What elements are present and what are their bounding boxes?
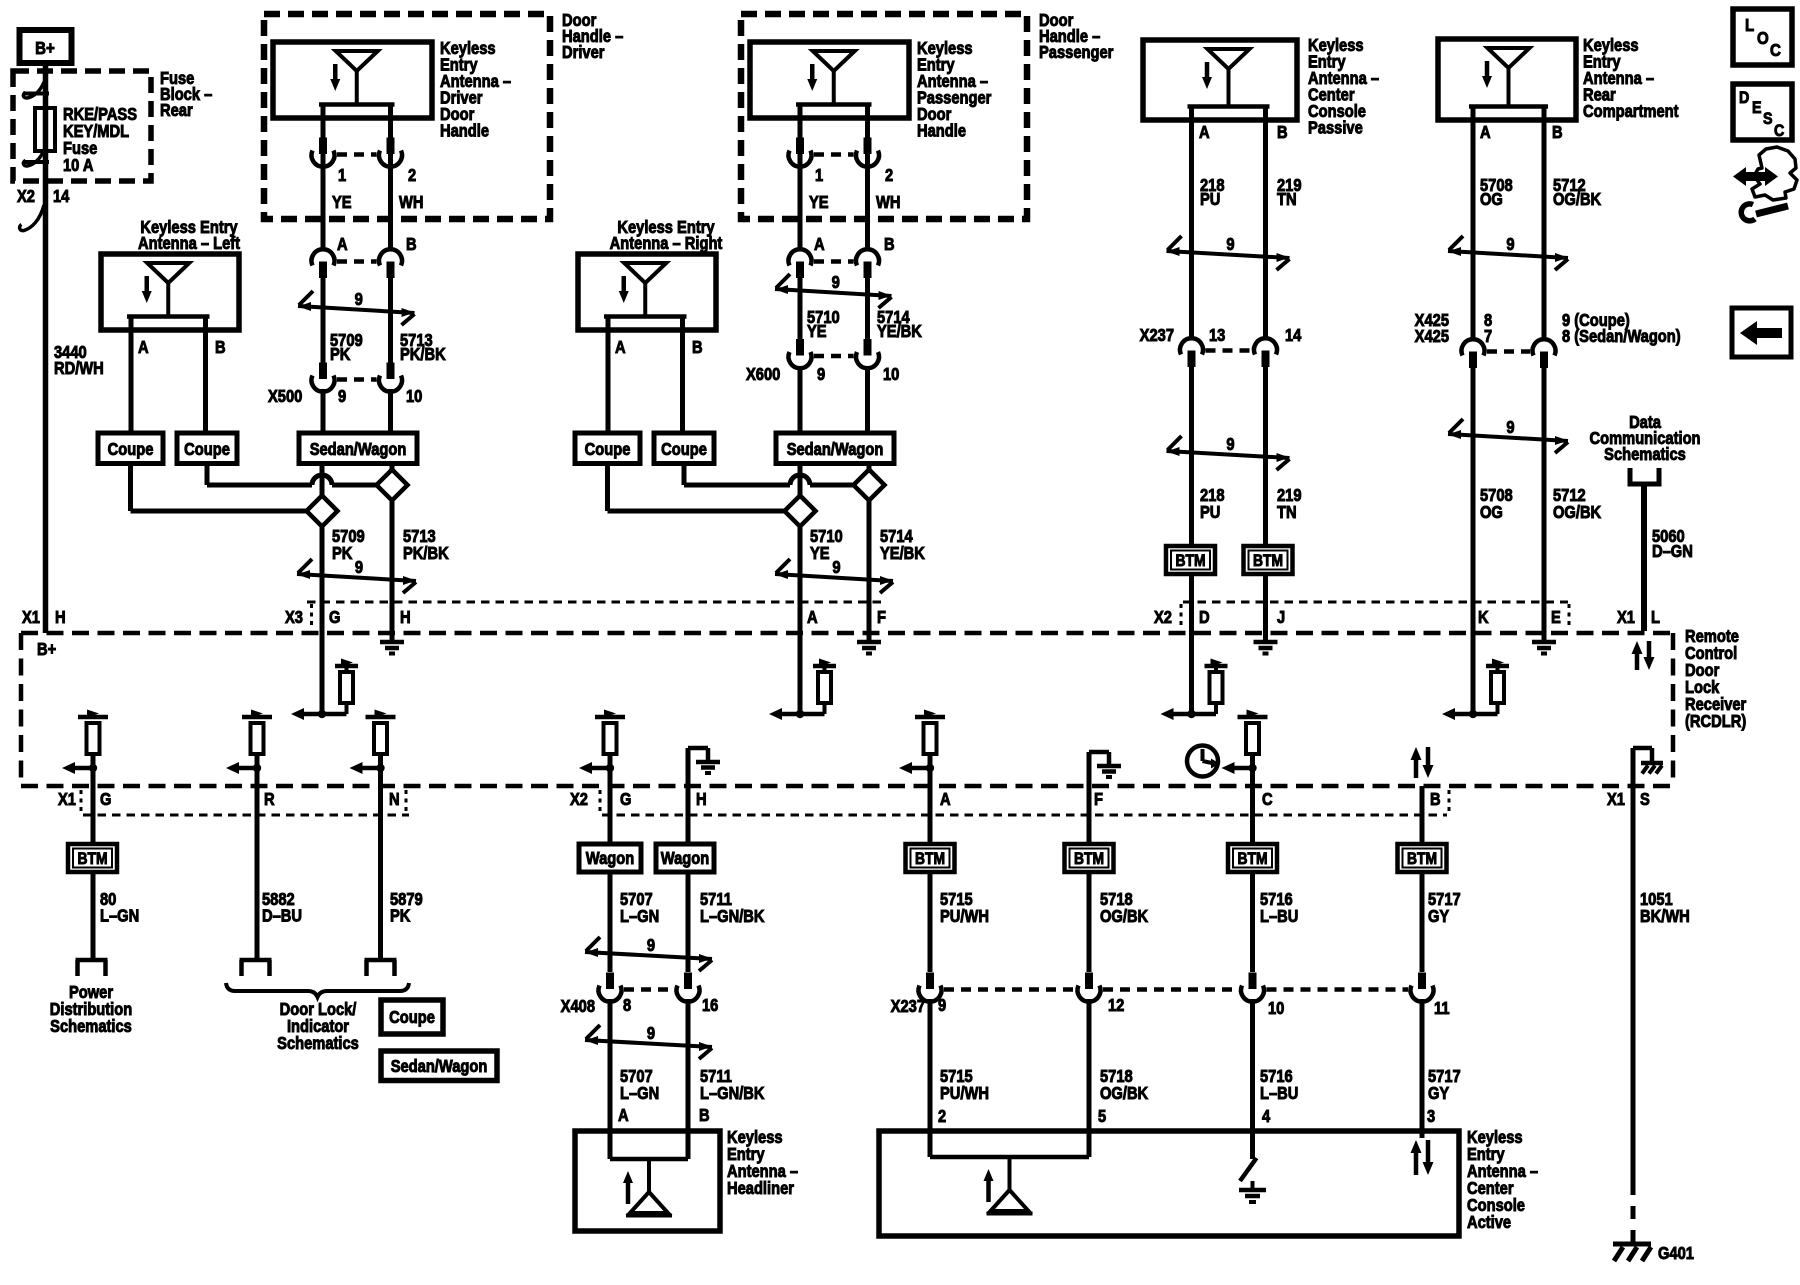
svg-text:H: H [400, 608, 411, 627]
svg-text:9: 9 [1226, 235, 1234, 254]
connector terminal (male pin) [796, 262, 804, 279]
label circuit 5711 L-GN/BK [700, 890, 765, 926]
wire X2-G output [608, 768, 613, 844]
icon wrench and arrows [1733, 147, 1797, 221]
antenna A1 Keyless Entry Antenna - Left [101, 254, 239, 330]
off-page terminator (door lock R) [240, 960, 272, 976]
wire X3-G interior [320, 633, 325, 714]
svg-text:WH: WH [399, 193, 423, 212]
wire right antenna pin A [606, 330, 611, 433]
wire C output [1250, 768, 1255, 844]
svg-text:9: 9 [832, 558, 840, 577]
door handle - passenger dashed boundary [741, 14, 1027, 219]
svg-text:OG: OG [1480, 190, 1503, 209]
interior chassis ground at pin S [1633, 748, 1652, 786]
svg-text:A: A [814, 235, 825, 254]
connector, driver door handle pins 1-2 [312, 138, 403, 167]
svg-text:YE/BK: YE/BK [880, 544, 925, 563]
option box Sedan/Wagon (legend) [381, 1051, 497, 1081]
wire 5713 upper [388, 276, 393, 363]
connector terminal (male pin) [606, 973, 614, 990]
wire 219 TN lower [1263, 366, 1268, 546]
svg-text:A: A [618, 1106, 629, 1125]
label X1 pin H (top left) [22, 608, 66, 627]
svg-text:X1: X1 [58, 790, 76, 809]
svg-text:4: 4 [1262, 1107, 1270, 1126]
antenna A8 Keyless Entry Antenna - Center Console Active [879, 1131, 1459, 1236]
wire 5710 upper [798, 276, 803, 342]
svg-text:TN: TN [1277, 190, 1297, 209]
wire 80 L-GN [91, 872, 96, 960]
wire 5707 L-GN upper [608, 872, 613, 972]
svg-text:BTM: BTM [1407, 850, 1437, 868]
wire 5715 lower [928, 999, 933, 1131]
svg-text:B: B [699, 1106, 710, 1125]
svg-text:PK: PK [332, 544, 353, 563]
wire 5713 lower [390, 463, 395, 633]
label circuit 80 L-GN [100, 890, 139, 926]
svg-text:G401: G401 [1658, 1244, 1694, 1263]
wire 5717 GY upper [1420, 872, 1425, 972]
option box Sedan/Wagon (passenger) [776, 433, 894, 464]
wire 5718 lower [1087, 999, 1092, 1131]
label X1 pins G R N (bottom) [58, 790, 400, 809]
connector strip X1 dotted line (bottom left) [81, 790, 409, 815]
svg-text:PU: PU [1200, 503, 1220, 522]
svg-text:R: R [264, 790, 275, 809]
svg-text:Sedan/Wagon: Sedan/Wagon [310, 440, 407, 459]
svg-text:B: B [692, 338, 703, 357]
connector mating dashed line [944, 987, 1075, 992]
svg-text:X408: X408 [561, 997, 595, 1016]
label YE WH wire colors [809, 193, 900, 212]
label circuit 218 PU [1200, 176, 1225, 209]
wire 219 TN upper [1263, 120, 1268, 339]
svg-text:Headliner: Headliner [727, 1179, 795, 1198]
label Keyless Entry Antenna - Rear Compartment [1583, 36, 1679, 121]
svg-text:5: 5 [1098, 1107, 1106, 1126]
label Remote Control Door Lock Receiver (RCDLR) [1685, 627, 1747, 731]
label Door Handle - Passenger [1039, 11, 1114, 62]
svg-text:9: 9 [1506, 235, 1514, 254]
BTM symbol on 218 [1166, 546, 1215, 574]
wire 5715 PU/WH upper [928, 872, 933, 972]
label circuit 219 TN [1277, 176, 1302, 209]
label circuit 5715 PU/WH [940, 890, 989, 926]
wire 5709 lower [320, 463, 325, 633]
label X425 X425 pins [1415, 311, 1493, 346]
svg-text:Passive: Passive [1308, 118, 1363, 137]
twisted-pair marker, group 9 [1448, 419, 1568, 453]
pass-through grommet [20, 205, 44, 231]
svg-text:L–GN: L–GN [100, 906, 139, 925]
twisted-pair marker, group 9 [1448, 236, 1568, 270]
connector terminal (female) [1241, 986, 1264, 1002]
label Door Lock / Indicator Schematics [277, 1000, 359, 1053]
svg-text:A: A [807, 608, 818, 627]
label circuit 5714 YE/BK [877, 308, 922, 341]
label Keyless Entry Antenna - Center Console Active [1467, 1128, 1538, 1232]
wire F output [1087, 786, 1092, 844]
svg-text:A: A [1480, 123, 1491, 142]
wire N output [378, 768, 383, 960]
fuse block - rear dashed box [13, 71, 151, 181]
svg-text:L–GN/BK: L–GN/BK [700, 1084, 765, 1103]
label X1 pin L [1617, 608, 1660, 627]
svg-text:Active: Active [1467, 1213, 1511, 1232]
label pins A F (passenger wires) [807, 608, 886, 627]
svg-text:C: C [1774, 122, 1784, 140]
label circuit 5707 L-GN (lower) [620, 1067, 659, 1103]
off-page terminator (power distribution) [76, 960, 108, 976]
wire hop over 5710 [790, 475, 810, 485]
svg-text:9: 9 [355, 558, 363, 577]
wire 5714 to Sedan/Wagon [865, 366, 870, 433]
brace door lock group [226, 983, 409, 997]
svg-text:X500: X500 [268, 387, 302, 406]
svg-text:YE: YE [809, 193, 829, 212]
connector terminal (male pin) [1469, 352, 1477, 369]
wire R output [255, 768, 260, 960]
connector strip X2 dotted line (bottom middle) [600, 790, 1449, 815]
svg-text:B+: B+ [35, 38, 55, 59]
connector X237 (console passive) [1180, 338, 1277, 367]
svg-text:TN: TN [1277, 503, 1297, 522]
svg-text:N: N [389, 790, 400, 809]
BTM symbol on 5716 [1228, 844, 1277, 872]
interior ground at pin F [1089, 752, 1121, 786]
label pins A B rear compartment [1480, 123, 1563, 142]
svg-text:D–GN: D–GN [1652, 542, 1693, 561]
svg-text:OG/BK: OG/BK [1100, 907, 1148, 926]
svg-text:BTM: BTM [1074, 850, 1104, 868]
icon DESC box [1733, 84, 1792, 140]
svg-text:13: 13 [1209, 326, 1225, 345]
label circuit 5718 OG/BK [1100, 890, 1148, 926]
twisted-pair marker, group 9 [1167, 436, 1290, 470]
wire K interior [1471, 633, 1476, 714]
svg-text:Wagon: Wagon [661, 849, 709, 868]
svg-text:10: 10 [883, 365, 899, 384]
connector terminal (male pin) [319, 363, 327, 380]
svg-text:9: 9 [647, 936, 655, 955]
label circuit 219 TN (lower) [1277, 486, 1302, 522]
label circuit 5060 D-GN [1652, 527, 1693, 561]
twisted-pair marker, group 9 [585, 1025, 712, 1059]
twisted-pair marker, group 9 [585, 937, 712, 971]
svg-text:L–GN: L–GN [620, 1084, 659, 1103]
svg-text:D–BU: D–BU [262, 906, 302, 925]
label pin 9 (Coupe) 8 (Sedan/Wagon) [1562, 311, 1681, 346]
wire 5708 OG upper [1471, 120, 1476, 340]
svg-text:L–BU: L–BU [1260, 907, 1298, 926]
connector terminal (female) [789, 151, 812, 167]
wire 219 to RCDLR pin J [1263, 574, 1268, 633]
battery B+ terminal box [20, 30, 72, 63]
connector mating dashed line [814, 354, 854, 359]
label circuit 5709 PK (below splice) [332, 527, 365, 563]
wire A output [928, 768, 933, 844]
connector terminal (male pin) [1249, 973, 1257, 990]
wire 218 to RCDLR pin D [1189, 574, 1194, 633]
label YE WH wire colors [332, 193, 423, 212]
wire 5710 to Sedan/Wagon [798, 366, 803, 433]
svg-text:YE: YE [807, 322, 827, 341]
label circuit 5716 L-BU (lower) [1260, 1067, 1298, 1103]
svg-text:9: 9 [1506, 418, 1514, 437]
svg-text:S: S [1763, 110, 1773, 128]
svg-text:B: B [1277, 123, 1288, 142]
svg-text:K: K [1478, 608, 1489, 627]
splice diamond on 5713 [377, 470, 408, 501]
label circuit 5707 L-GN [620, 890, 659, 926]
svg-text:E: E [1551, 608, 1561, 627]
connector terminal (female) [312, 249, 335, 265]
connector terminal (female) [599, 986, 622, 1002]
twisted-pair marker, group 9 [775, 559, 893, 593]
wire Coupe B to splice 5714 (hops over 5710) [684, 463, 854, 485]
connector X237 (console active) [919, 973, 1101, 1002]
wire antenna pin 1 (YE) [321, 118, 326, 251]
ground symbol interior (pin E) [1532, 633, 1556, 654]
svg-text:9: 9 [338, 387, 346, 406]
svg-text:BTM: BTM [915, 850, 945, 868]
wire Coupe A to splice 5710 [608, 463, 786, 511]
wire 5716 L-BU upper [1250, 872, 1255, 972]
svg-text:L: L [1651, 608, 1660, 627]
svg-text:G: G [329, 608, 340, 627]
svg-text:G: G [620, 790, 631, 809]
wire left antenna pin B to Coupe splice [203, 330, 208, 433]
connector strip X3 dotted line [307, 602, 887, 627]
label circuit 5717 GY [1428, 890, 1461, 926]
splice diamond on 5709 [307, 496, 338, 527]
svg-text:14: 14 [1285, 326, 1301, 345]
svg-text:A: A [138, 338, 149, 357]
connector mating dashed line [814, 259, 854, 264]
label circuit 5717 GY (lower) [1428, 1067, 1461, 1103]
wire 218 PU upper [1189, 120, 1194, 339]
ground symbol interior (X3-H) [380, 633, 404, 654]
label circuit 5711 L-GN/BK (lower) [700, 1067, 765, 1103]
connector terminal (female) [919, 986, 942, 1002]
label circuit 5708 OG [1480, 176, 1513, 209]
clock symbol [1187, 746, 1220, 777]
label pins A B of right antenna [615, 338, 703, 357]
svg-text:OG/BK: OG/BK [1553, 503, 1601, 522]
svg-text:Coupe: Coupe [585, 440, 631, 459]
label circuit 5708 OG (lower) [1480, 486, 1513, 522]
svg-text:Antenna – Right: Antenna – Right [610, 234, 723, 253]
label circuit 5713 PK/BK (below splice) [403, 527, 449, 563]
connector terminal (male pin) [796, 138, 804, 155]
fuse clip lower [23, 150, 49, 166]
svg-text:BK/WH: BK/WH [1640, 907, 1690, 926]
svg-text:B: B [1430, 790, 1441, 809]
svg-text:8 (Sedan/Wagon): 8 (Sedan/Wagon) [1562, 327, 1681, 346]
svg-text:B+: B+ [37, 640, 56, 659]
svg-text:10: 10 [406, 387, 422, 406]
connector X425 [1462, 339, 1556, 368]
label circuit 5714 YE/BK (below splice) [880, 527, 925, 563]
connector terminal (female) [312, 151, 335, 167]
up-down arrows inside console antenna (pin 3) [1420, 1131, 1425, 1138]
option box Wagon (5711) [656, 844, 714, 872]
svg-text:O: O [1757, 28, 1769, 49]
wire B+ 3440 RD/WH [43, 63, 49, 633]
svg-text:X237: X237 [891, 997, 925, 1016]
svg-text:PU/WH: PU/WH [940, 1084, 989, 1103]
label X408 pins 8 16 [561, 996, 719, 1016]
connector terminal (male pin) [926, 973, 934, 990]
svg-text:1: 1 [338, 166, 346, 185]
svg-text:12: 12 [1108, 996, 1124, 1015]
label X2 pins G H A F C B (bottom) [570, 790, 1441, 809]
antenna driver element (X2-D) [1161, 659, 1228, 721]
connector X237 mating dashes across [1103, 987, 1238, 992]
svg-text:7: 7 [1484, 327, 1492, 346]
svg-text:B: B [1552, 123, 1563, 142]
connector mating dashed line [337, 259, 377, 264]
label X237 pins 13 14 [1140, 326, 1302, 345]
wire 5060 D-GN [1641, 484, 1647, 631]
label X500 pins 9 10 [268, 387, 422, 406]
label X600 pins 9 10 [746, 365, 899, 384]
svg-text:BTM: BTM [1253, 552, 1283, 570]
door handle - driver dashed boundary [264, 14, 550, 219]
connector mating dashed line [337, 152, 377, 157]
connector terminal (male pin) [319, 262, 327, 279]
label pins A B headliner [618, 1106, 710, 1125]
svg-text:RD/WH: RD/WH [54, 359, 104, 378]
wire antenna pin 1 (YE) [798, 118, 803, 251]
svg-text:11: 11 [1434, 999, 1450, 1018]
svg-text:H: H [696, 790, 707, 809]
label pins 1 2 [815, 166, 893, 185]
label X2 pin 14 fuse block connector [17, 187, 69, 206]
wire D interior [1189, 633, 1194, 714]
svg-text:10: 10 [1268, 999, 1284, 1018]
svg-text:A: A [940, 790, 951, 809]
up-down arrows at pin L [1632, 641, 1655, 670]
connector mating dashed line [337, 377, 377, 382]
wire 5709 to Sedan/Wagon [321, 389, 326, 433]
label pins 1 2 [338, 166, 416, 185]
svg-text:Driver: Driver [562, 43, 605, 62]
svg-text:GY: GY [1428, 907, 1449, 926]
wire A interior [798, 633, 803, 714]
wire 1051 BK/WH [1631, 786, 1636, 1242]
label circuit 5712 OG/BK (lower) [1553, 486, 1601, 522]
label Keyless Entry Antenna - Driver Door Handle [440, 39, 511, 141]
svg-text:L–GN/BK: L–GN/BK [700, 907, 765, 926]
wire 5711 lower [686, 999, 691, 1131]
fuse F RKE/PASS KEY/MDL 10A [35, 108, 55, 151]
svg-text:PU: PU [1200, 190, 1220, 209]
svg-text:C: C [1262, 790, 1273, 809]
svg-text:J: J [1277, 608, 1285, 627]
connector terminal (male pin) [1188, 351, 1196, 368]
label pins K E [1478, 608, 1561, 627]
connector terminal (male pin) [319, 138, 327, 155]
svg-text:Passenger: Passenger [1039, 43, 1114, 62]
connector mating dashed line [1267, 987, 1409, 992]
antenna symbol center console active [984, 1157, 1033, 1214]
connector terminal (female) [1462, 339, 1485, 355]
svg-text:2: 2 [885, 166, 893, 185]
label circuit 5710 YE [807, 308, 840, 341]
connector terminal (female) [312, 376, 335, 392]
option box Coupe (right antenna B) [654, 433, 714, 464]
wire 5707 lower [608, 999, 613, 1131]
antenna driver element (R output) [226, 710, 272, 775]
wire right antenna pin B [680, 330, 685, 433]
wire X1-G output [91, 768, 96, 844]
connector terminal (male pin) [796, 339, 804, 356]
svg-text:16: 16 [702, 996, 718, 1015]
svg-text:Coupe: Coupe [661, 440, 707, 459]
svg-text:Sedan/Wagon: Sedan/Wagon [787, 440, 884, 459]
label pins A B [337, 235, 417, 254]
svg-text:E: E [1752, 99, 1762, 117]
svg-text:9: 9 [817, 365, 825, 384]
option box Wagon (5707) [579, 844, 641, 872]
wire X2-H output [686, 786, 691, 844]
svg-text:9: 9 [938, 996, 946, 1015]
svg-text:F: F [1094, 790, 1103, 809]
svg-text:BTM: BTM [1176, 552, 1206, 570]
svg-text:OG/BK: OG/BK [1100, 1084, 1148, 1103]
Remote Control Door Lock Receiver module dashed box [21, 633, 1676, 786]
antenna A4 Keyless Entry Antenna - Passenger Door Handle [750, 42, 909, 118]
svg-text:2: 2 [408, 166, 416, 185]
label circuit 5879 PK [390, 890, 423, 926]
connector X408 [599, 973, 700, 1002]
antenna driver element (X1-G output) [62, 710, 108, 775]
svg-text:9: 9 [832, 273, 840, 292]
twisted-pair marker, group 9 [298, 291, 415, 325]
wire 5712 OG/BK upper [1542, 120, 1547, 340]
svg-text:A: A [1199, 123, 1210, 142]
svg-text:Wagon: Wagon [586, 849, 634, 868]
option box Coupe (left antenna A) [98, 433, 163, 464]
svg-text:L–BU: L–BU [1260, 1084, 1298, 1103]
label circuit 5716 L-BU [1260, 890, 1298, 926]
antenna driver element (X2-G output) [579, 710, 625, 775]
label circuit 5718 OG/BK (lower) [1100, 1067, 1148, 1103]
svg-text:9: 9 [647, 1024, 655, 1043]
svg-text:14: 14 [53, 187, 69, 206]
wire 5714 upper [865, 276, 870, 342]
twisted-pair marker, group 9 [1167, 236, 1290, 270]
svg-text:F: F [877, 608, 886, 627]
antenna driver element (C output) [1222, 710, 1268, 775]
wire 5710 lower [798, 463, 803, 633]
connector terminal (female) [789, 249, 812, 265]
svg-text:X1: X1 [1607, 790, 1625, 809]
wire 5711 L-GN/BK upper [686, 872, 691, 972]
antenna driver element (pin K) [1442, 659, 1509, 721]
option box Coupe (right antenna A) [575, 433, 640, 464]
connector, passenger door handle pins 1-2 [789, 138, 880, 167]
label pins A B console passive [1199, 123, 1288, 142]
svg-text:Antenna – Left: Antenna – Left [138, 234, 241, 253]
svg-text:C: C [1770, 40, 1781, 61]
label circuit 5712 OG/BK [1553, 176, 1601, 209]
svg-text:Compartment: Compartment [1583, 102, 1679, 121]
twisted-pair marker, group 9 [297, 559, 416, 593]
option box Coupe (left antenna B) [177, 433, 237, 464]
